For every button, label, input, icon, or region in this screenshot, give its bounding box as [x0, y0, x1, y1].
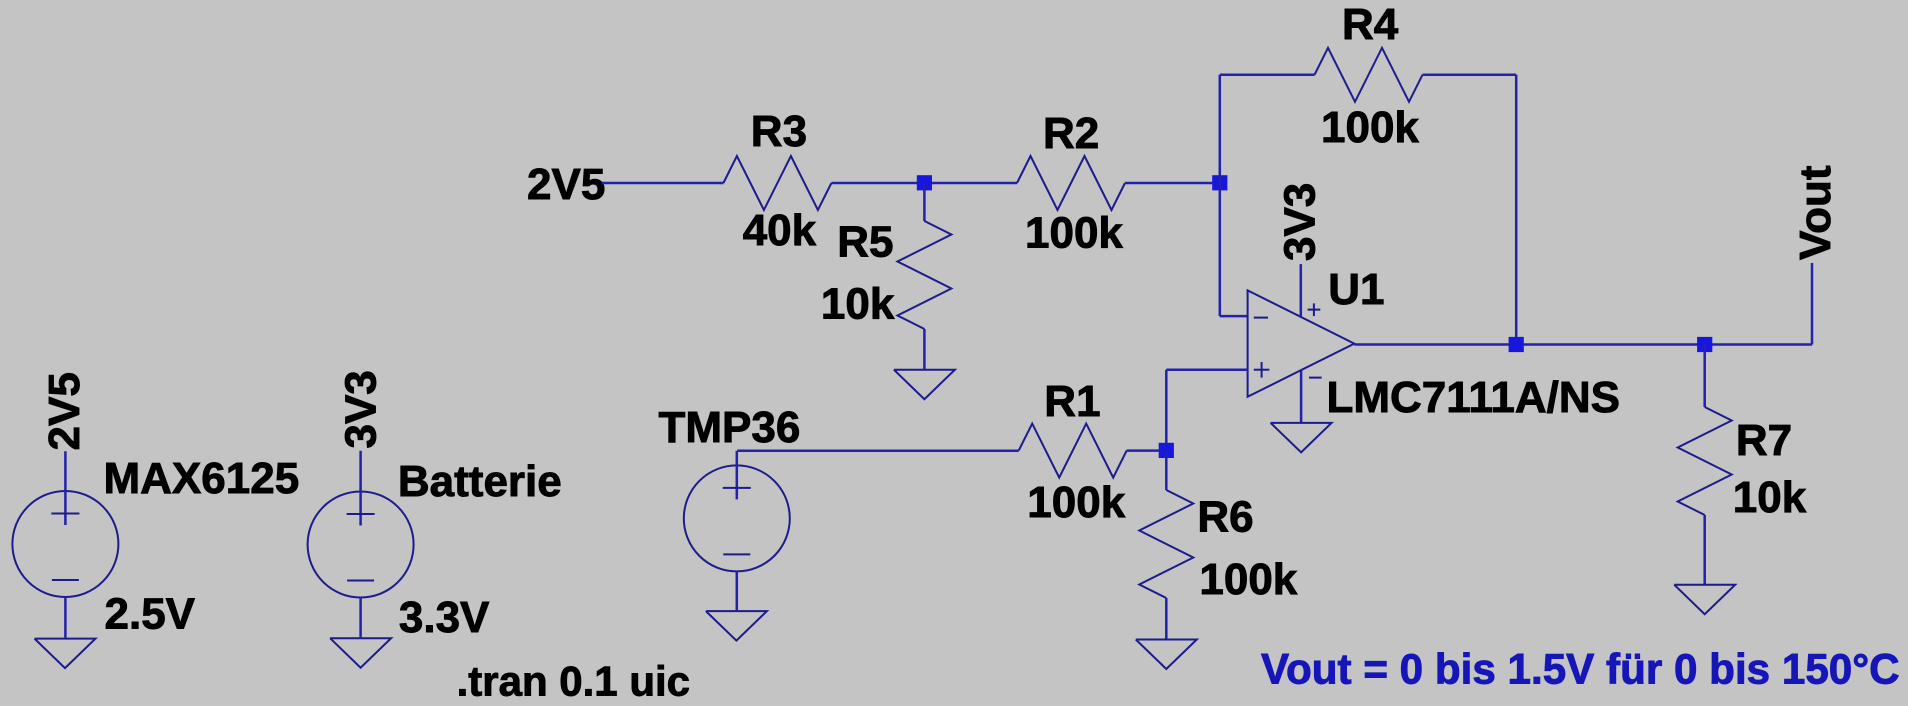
wire R7 to ground — [1703, 515, 1706, 585]
value 40k — [743, 206, 817, 255]
wire feedback top right — [1423, 74, 1517, 77]
voltage source V3 (TMP36) — [684, 451, 790, 611]
directive .tran 0.1 uic — [457, 658, 690, 705]
node R3/R5/R2 junction — [917, 175, 932, 190]
svg-text:Vout: Vout — [1791, 165, 1840, 260]
wire R1 node up — [1165, 370, 1168, 451]
resistor R1 — [1019, 424, 1127, 478]
ground (below V3) — [706, 611, 767, 641]
svg-text:.tran 0.1 uic: .tran 0.1 uic — [457, 658, 690, 705]
svg-text:3V3: 3V3 — [1275, 183, 1324, 261]
wire node to R6 — [1165, 450, 1168, 490]
value 10k (R7) — [1733, 473, 1807, 522]
label R5 — [837, 218, 893, 267]
resistor R2 — [1017, 156, 1125, 210]
svg-text:R5: R5 — [837, 218, 893, 267]
wire R3 to R2 (through node) — [831, 182, 1017, 185]
label R6 — [1197, 493, 1253, 542]
svg-text:2V5: 2V5 — [40, 372, 89, 450]
label R3 — [751, 107, 807, 156]
node R1/R6/non-inv junction — [1159, 443, 1174, 458]
wire to non-inverting input — [1166, 368, 1247, 371]
value label 2.5V — [105, 590, 196, 639]
label R7 — [1736, 416, 1792, 465]
svg-text:R4: R4 — [1342, 0, 1399, 49]
svg-text:100k: 100k — [1027, 478, 1125, 527]
resistor R7 — [1678, 407, 1732, 515]
op-amp non-inverting input plus — [1254, 362, 1270, 378]
svg-text:100k: 100k — [1321, 103, 1419, 152]
svg-text:2V5: 2V5 — [527, 160, 605, 209]
value 100k (R4) — [1321, 103, 1419, 152]
node R2/R4/opamp junction — [1212, 175, 1227, 190]
wire node up to feedback — [1219, 75, 1222, 183]
svg-text:MAX6125: MAX6125 — [104, 454, 300, 503]
net label 3V3 (op-amp supply) — [1275, 183, 1324, 261]
wire R5 to ground — [923, 329, 926, 370]
op-amp U1 body — [1248, 290, 1355, 396]
label R2 — [1043, 109, 1099, 158]
wire op-amp output to Vout — [1354, 343, 1812, 346]
svg-text:40k: 40k — [743, 206, 817, 255]
op-amp V- power pin wire — [1300, 370, 1303, 423]
ground (below R5) — [894, 370, 955, 400]
svg-text:10k: 10k — [821, 280, 895, 329]
svg-text:2.5V: 2.5V — [105, 590, 196, 639]
resistor R3 — [723, 156, 831, 210]
svg-text:100k: 100k — [1199, 555, 1297, 604]
svg-text:Vout = 0 bis 1.5V für 0 bis 15: Vout = 0 bis 1.5V für 0 bis 150°C — [1261, 646, 1900, 693]
label R4 — [1342, 0, 1399, 49]
wire 2V5 to R3 — [602, 182, 724, 185]
svg-text:R2: R2 — [1043, 109, 1099, 158]
value 100k (R6) — [1199, 555, 1297, 604]
ground (below R7) — [1674, 585, 1735, 615]
resistor R4 — [1315, 48, 1423, 102]
value label 3.3V — [399, 593, 490, 642]
label TMP36 — [659, 403, 801, 452]
op-amp V+ plus symbol — [1308, 303, 1321, 316]
value 100k (R2) — [1025, 209, 1123, 258]
wire inverting node down — [1219, 183, 1222, 316]
net label Vout — [1791, 165, 1840, 260]
ground (below R6) — [1136, 640, 1197, 670]
net label 2V5 (V1) — [40, 372, 89, 450]
svg-text:R7: R7 — [1736, 416, 1792, 465]
node output/R4 junction — [1509, 337, 1524, 352]
svg-text:10k: 10k — [1733, 473, 1807, 522]
label MAX6125 — [104, 454, 300, 503]
wire R6 to ground — [1165, 598, 1168, 640]
wire R1 to node — [1127, 449, 1167, 452]
svg-text:TMP36: TMP36 — [659, 403, 801, 452]
net label 2V5 (input) — [527, 160, 605, 209]
op-amp V+ power pin wire — [1300, 264, 1303, 317]
voltage source V2 (3V3 Batterie) — [308, 451, 414, 638]
svg-text:U1: U1 — [1328, 265, 1384, 314]
svg-text:LMC7111A/NS: LMC7111A/NS — [1327, 373, 1620, 422]
voltage source V1 (2V5 MAX6125) — [12, 451, 118, 638]
op-amp V- minus symbol — [1309, 377, 1322, 379]
wire feedback top left — [1220, 74, 1315, 77]
ground (below V1) — [35, 639, 96, 669]
label LMC7111A/NS — [1327, 373, 1620, 422]
net label 3V3 (V2) — [337, 370, 386, 448]
value 10k (R5) — [821, 280, 895, 329]
node output/R7 junction — [1697, 337, 1712, 352]
wire node to R5 — [923, 183, 926, 221]
resistor R6 — [1139, 490, 1193, 598]
comment Vout = 0 bis 1.5V fuer 0 bis 150degC — [1261, 646, 1900, 693]
resistor R5 — [897, 221, 951, 329]
value 100k (R1) — [1027, 478, 1125, 527]
svg-text:100k: 100k — [1025, 209, 1123, 258]
wire feedback down to output — [1515, 75, 1518, 345]
wire TMP36 to R1 — [737, 450, 1019, 453]
wire node to R7 — [1703, 345, 1706, 408]
ground (op-amp V-) — [1271, 423, 1332, 453]
wire to inverting input — [1220, 315, 1248, 318]
svg-text:Batterie: Batterie — [398, 457, 562, 506]
label Batterie — [398, 457, 562, 506]
svg-text:R1: R1 — [1044, 377, 1100, 426]
wire Vout up — [1811, 263, 1814, 345]
label R1 — [1044, 377, 1100, 426]
op-amp inverting input minus — [1254, 317, 1268, 319]
svg-text:3.3V: 3.3V — [399, 593, 490, 642]
wire R2 to inverting node — [1125, 182, 1220, 185]
label U1 — [1328, 265, 1384, 314]
svg-text:R6: R6 — [1197, 493, 1253, 542]
svg-text:3V3: 3V3 — [337, 370, 386, 448]
ground (below V2) — [330, 638, 391, 668]
svg-text:R3: R3 — [751, 107, 807, 156]
